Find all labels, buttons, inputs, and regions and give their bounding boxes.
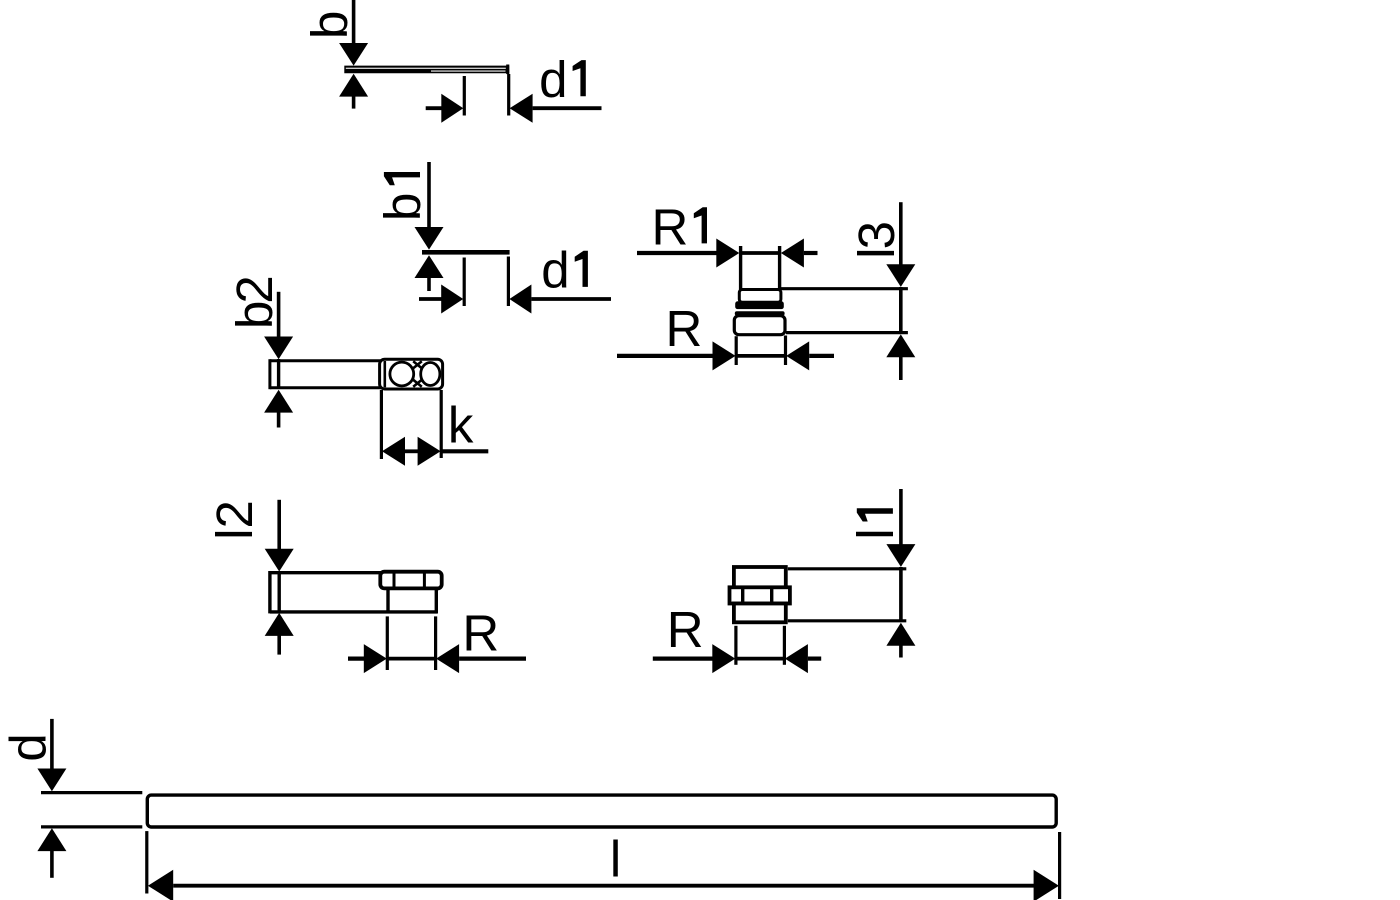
ext line R left bbox=[386, 616, 389, 670]
ext line R right bbox=[783, 626, 786, 665]
ext line l1 bottom bbox=[788, 619, 907, 622]
arrow R left-pointing bbox=[785, 644, 808, 673]
long bar bbox=[147, 795, 1056, 827]
nut chamfer X top bbox=[413, 361, 422, 368]
ext line d1 right bbox=[507, 257, 510, 307]
arrow d down bbox=[37, 769, 66, 792]
dim R segment bbox=[387, 657, 436, 661]
svg-text:d: d bbox=[541, 242, 569, 299]
ext line l3 bottom bbox=[786, 331, 908, 334]
shank left side bbox=[386, 588, 389, 611]
ext line d bottom bbox=[41, 825, 142, 828]
dim line b2 through bar bbox=[277, 359, 280, 389]
svg-text:b2: b2 bbox=[226, 278, 283, 329]
arrow R right-pointing bbox=[712, 644, 735, 673]
bar left edge bbox=[268, 359, 271, 389]
nut left facet line bbox=[383, 361, 386, 387]
dim line d lower tail bbox=[50, 851, 54, 878]
arrow l1 down bbox=[886, 544, 915, 567]
svg-text:R: R bbox=[667, 601, 704, 658]
arrow R right-pointing bbox=[713, 341, 736, 370]
flange band bbox=[735, 301, 784, 309]
head facet line left bbox=[393, 574, 396, 587]
hex nut outline (side view) bbox=[380, 359, 443, 389]
label d1 digit bbox=[573, 60, 586, 96]
ext line l left bbox=[145, 831, 148, 893]
arrow k right-pointing bbox=[418, 437, 441, 466]
arrow R left-pointing bbox=[436, 644, 459, 673]
arrow l2 up bbox=[265, 613, 294, 636]
dim R segment bbox=[736, 354, 787, 358]
dim d1 left tail bbox=[426, 106, 442, 110]
arrow d1 right-pointing bbox=[441, 285, 463, 314]
blade lower-right white sliver bbox=[431, 71, 506, 72]
arrow d1 right-pointing bbox=[441, 94, 463, 123]
dim line l2 upper tail bbox=[277, 500, 281, 550]
dim R segment bbox=[735, 657, 785, 661]
shank left side bbox=[739, 246, 742, 290]
shank right side bbox=[778, 246, 781, 290]
arrow R1 left-pointing bbox=[781, 239, 804, 268]
arrow b down bbox=[339, 43, 368, 66]
dim line b1 upper tail bbox=[427, 162, 431, 230]
nut chamfer X bottom bbox=[413, 380, 422, 387]
bar bottom edge bbox=[270, 386, 381, 389]
dim line b lower tail bbox=[352, 96, 356, 109]
dim line l3 upper tail bbox=[899, 202, 903, 265]
dim line l1 upper tail bbox=[899, 489, 903, 545]
arrow b2 down bbox=[264, 337, 293, 360]
arrow d up bbox=[37, 828, 66, 851]
stud collar bbox=[730, 587, 790, 603]
blade inner white stripe bbox=[346, 68, 506, 69]
arrow b2 up bbox=[264, 390, 293, 413]
shank right side bbox=[435, 588, 438, 613]
ext line R right bbox=[434, 616, 437, 670]
arrow b1 down bbox=[415, 227, 444, 250]
dim R right tail bbox=[459, 656, 526, 660]
ext line d1 left bbox=[463, 258, 466, 307]
bar bottom edge bbox=[270, 610, 438, 613]
svg-text:R: R bbox=[462, 604, 499, 661]
dim d1 right tail bbox=[533, 106, 602, 110]
dim k right tail bbox=[441, 449, 488, 453]
svg-text:b: b bbox=[374, 193, 431, 221]
nut chamfer circle big bbox=[390, 362, 414, 386]
label b1 (rotated) bbox=[374, 172, 431, 221]
svg-text:d: d bbox=[539, 51, 567, 108]
arrow l1 up bbox=[886, 623, 915, 646]
dim line l2 through bar bbox=[278, 572, 281, 613]
arrow l2 down bbox=[265, 549, 294, 572]
dim R1 left tail bbox=[637, 251, 717, 255]
nut chamfer circle small bbox=[421, 363, 440, 386]
arrow l right-pointing bbox=[1034, 870, 1059, 900]
arrow k left-pointing bbox=[382, 437, 405, 466]
dim line b2 upper tail bbox=[277, 292, 281, 338]
tip body bbox=[734, 316, 785, 335]
lower band bbox=[735, 311, 785, 315]
bar top edge bbox=[270, 359, 381, 362]
dim k middle segment bbox=[404, 449, 419, 453]
stud head bbox=[380, 572, 441, 589]
bar top edge bbox=[270, 571, 381, 574]
dim R right tail bbox=[809, 354, 834, 358]
arrow R1 right-pointing bbox=[716, 239, 739, 268]
svg-text:d: d bbox=[0, 733, 57, 761]
arrow b1 up bbox=[415, 255, 444, 278]
arrow l left-pointing bbox=[148, 870, 173, 900]
svg-text:b: b bbox=[301, 11, 358, 39]
svg-text:R: R bbox=[666, 300, 703, 357]
stud top rect bbox=[734, 567, 786, 588]
svg-text:l: l bbox=[610, 831, 621, 888]
arrow d1 left-pointing bbox=[509, 285, 531, 314]
arrow R right-pointing bbox=[364, 644, 387, 673]
label R1 digit bbox=[694, 207, 707, 243]
dim line l3 through bbox=[899, 287, 903, 334]
dim line b upper tail bbox=[352, 0, 356, 45]
arrow d1 left-pointing bbox=[510, 94, 533, 123]
blade plate (side view) bbox=[344, 66, 509, 74]
ext line d1 right bbox=[507, 74, 510, 116]
ext line R left bbox=[734, 626, 737, 665]
ext line k right bbox=[440, 390, 443, 458]
arrow l3 up bbox=[886, 334, 915, 357]
ext line R left bbox=[735, 336, 738, 365]
head facet line right bbox=[423, 574, 426, 587]
dim line l3 lower tail bbox=[899, 357, 903, 381]
ext line d top bbox=[41, 791, 142, 794]
ext line R right bbox=[784, 336, 787, 366]
ext line l1 top bbox=[788, 567, 907, 570]
dim line l bbox=[173, 884, 1034, 888]
dim R left tail bbox=[617, 354, 713, 358]
dim R left tail bbox=[653, 656, 713, 660]
stud lower rect bbox=[734, 604, 786, 623]
collar bbox=[739, 290, 781, 303]
bar left edge bbox=[268, 571, 271, 613]
dim line b1 lower tail bbox=[427, 278, 431, 292]
svg-text:l: l bbox=[847, 528, 904, 539]
flange white stripe bbox=[737, 309, 784, 311]
dim line b2 lower tail bbox=[277, 412, 281, 428]
ext line k left bbox=[380, 390, 383, 459]
svg-text:R: R bbox=[652, 198, 689, 255]
dim R right tail bbox=[808, 656, 821, 660]
svg-text:l3: l3 bbox=[848, 222, 905, 258]
blade right end tick bbox=[506, 65, 509, 75]
plate (edge view) bbox=[422, 250, 510, 255]
label l1 (rotated) bbox=[847, 508, 904, 539]
ext line l3 top bbox=[781, 287, 908, 290]
dim d1 right tail bbox=[531, 297, 611, 301]
ext line l right bbox=[1058, 832, 1061, 899]
ext line d1 left bbox=[463, 76, 466, 116]
dim line l1 through bbox=[899, 567, 903, 621]
dim line l1 lower tail bbox=[899, 645, 903, 658]
dim R left tail bbox=[348, 656, 365, 660]
dim d1 left tail bbox=[419, 297, 442, 301]
dim R1 right tail bbox=[804, 251, 818, 255]
dim line d upper tail bbox=[50, 719, 54, 770]
svg-text:k: k bbox=[448, 396, 474, 453]
dim line l2 lower tail bbox=[277, 635, 281, 655]
collar facet line right bbox=[770, 589, 773, 602]
arrow b up bbox=[339, 74, 368, 97]
svg-text:l2: l2 bbox=[206, 500, 263, 540]
arrow l3 down bbox=[886, 264, 915, 287]
label d1 digit bbox=[575, 251, 588, 287]
collar facet line left bbox=[741, 589, 744, 602]
dim R1 segment bbox=[741, 251, 780, 255]
arrow R left-pointing bbox=[786, 341, 809, 370]
